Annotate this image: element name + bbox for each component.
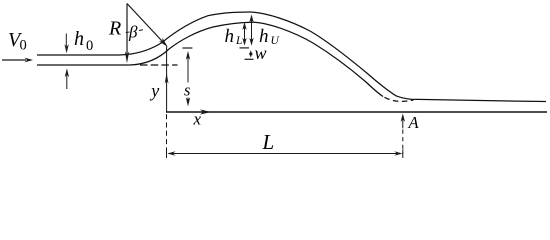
node reference bar under hL hU (240, 47, 250, 49)
node hL measurement arrow (242, 22, 246, 46)
node w measurement arrow (249, 50, 253, 57)
svg-text:A: A (408, 113, 420, 132)
wire vertical extension line at origin (166, 47, 168, 113)
svg-text:x: x (193, 110, 202, 129)
node y axis arrowhead (165, 73, 169, 84)
svg-text:h: h (74, 28, 84, 50)
svg-text:w: w (255, 43, 267, 63)
node reference bar under w (245, 58, 254, 60)
node x axis arrowhead (200, 109, 211, 114)
wire dashed vertical below origin (166, 114, 168, 155)
node R radius vertical arrow (125, 4, 129, 64)
node V0 inlet velocity arrow (2, 58, 33, 63)
wire dashed continuation of inlet lower surface (140, 64, 178, 66)
svg-text:y: y (149, 81, 159, 101)
node beta angle arc dashes (126, 30, 143, 33)
svg-text:U: U (271, 35, 280, 47)
wire dashed vertical at point A (402, 130, 404, 155)
svg-text:L: L (235, 35, 242, 47)
svg-text:h: h (225, 26, 235, 47)
wire lower film surface (37, 22, 383, 96)
wire dashed continuation of lower surface to reattachment (385, 97, 414, 101)
node L dimension line (167, 149, 403, 158)
node A reattachment arrow (401, 113, 405, 128)
node R radius slanted arrow (127, 4, 168, 48)
node label s (182, 83, 194, 98)
svg-text:β: β (128, 23, 138, 42)
wire upper film surface (37, 12, 546, 102)
svg-text:L: L (262, 130, 275, 154)
node hU measurement arrow (249, 14, 253, 45)
node s coordinate arrow (186, 51, 190, 107)
svg-text:0: 0 (86, 38, 93, 54)
svg-text:R: R (108, 18, 121, 40)
wire substrate / x-axis line (166, 111, 547, 113)
node h0 thickness arrows (64, 34, 69, 90)
svg-text:s: s (184, 81, 190, 100)
svg-text:0: 0 (20, 38, 27, 54)
node s reference T-bar (182, 47, 192, 49)
